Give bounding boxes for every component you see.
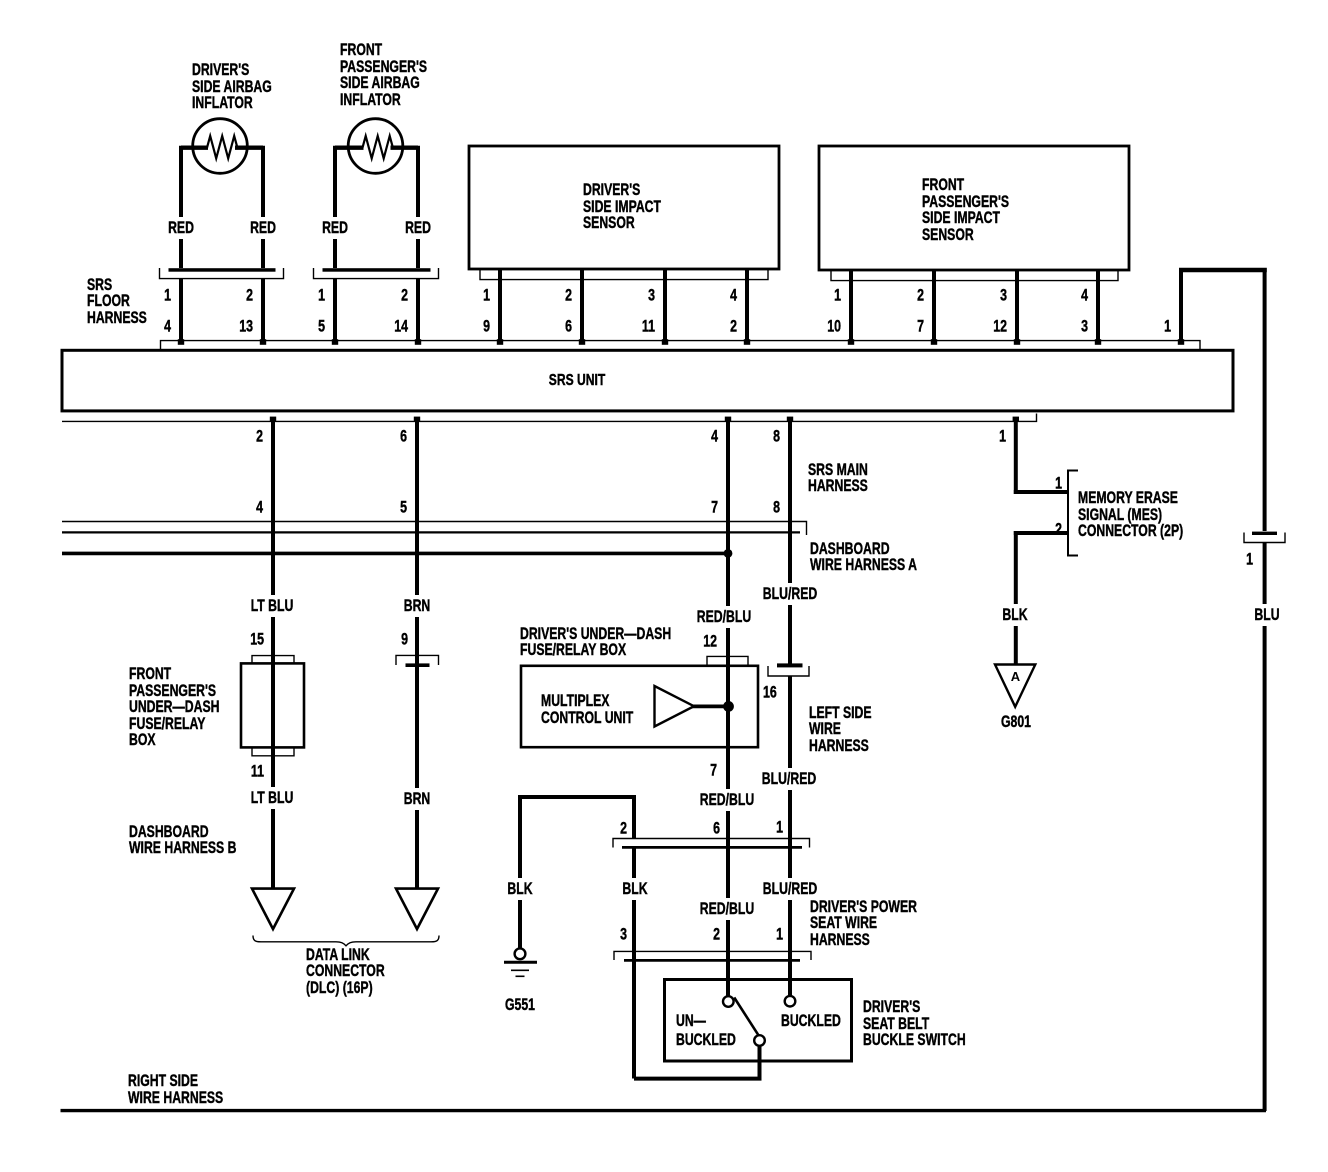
svg-text:A: A [1011, 669, 1021, 684]
